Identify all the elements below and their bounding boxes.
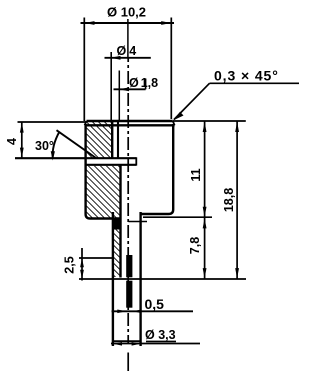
dimension 0,5 line — [112, 310, 194, 314]
dimension 2,5 vertical line — [80, 248, 84, 281]
dimension 4 label — [5, 138, 19, 145]
angle 30 arc with arrow — [51, 132, 60, 161]
svg-text:Ø 3,3: Ø 3,3 — [145, 328, 176, 342]
svg-text:30°: 30° — [35, 139, 54, 153]
svg-text:Ø4: Ø4 — [117, 44, 137, 58]
stem wall junction dark blob — [112, 218, 121, 230]
upper bore wall line — [117, 122, 119, 159]
dimension 2,5 extension top — [79, 257, 113, 259]
dimension 4 vertical line — [20, 122, 24, 158]
extension line at stem step y279 — [79, 278, 246, 280]
groove step riser — [135, 157, 137, 165]
dimension Ø10,2 label — [107, 5, 146, 20]
stem bottom edge — [112, 340, 142, 342]
body top face edge — [87, 120, 173, 122]
stem left outer wall — [112, 212, 114, 346]
dimension Ø1,8 line — [114, 79, 146, 92]
dimension 18,8 label — [222, 188, 236, 212]
extension line right of Ø10,2 — [170, 18, 172, 120]
lower bore wall line — [119, 165, 121, 278]
center drill hole bar upper — [126, 255, 132, 277]
flange left edge and bottom left — [86, 124, 121, 219]
dimension 4 extension top — [18, 121, 86, 123]
dimension 2,5 label — [63, 256, 77, 273]
groove step upper edge + 4-dim extension — [15, 157, 136, 159]
groove step lower edge — [86, 164, 137, 166]
angle 30 label — [35, 139, 54, 153]
lower hatch block (flange section below groove) — [86, 166, 120, 218]
svg-text:2,5: 2,5 — [63, 256, 77, 273]
angle 30 ray — [57, 130, 97, 158]
svg-text:0,5: 0,5 — [145, 296, 165, 312]
svg-text:4: 4 — [5, 138, 19, 145]
dimension Ø10,2 line — [81, 21, 175, 25]
svg-text:Ø1,8: Ø1,8 — [129, 76, 158, 90]
svg-text:18,8: 18,8 — [222, 188, 236, 212]
chamfer corner right — [173, 121, 175, 125]
dimension 11 / 7,8 vertical line — [203, 121, 207, 279]
extension line center top — [127, 19, 129, 58]
counterbore wall line — [111, 122, 113, 159]
extension line left of Ø10,2 — [83, 18, 85, 122]
centerline — [127, 58, 129, 344]
extension line top right (for 11 and 18,8) — [173, 120, 246, 122]
extension line Ø4 left — [110, 52, 112, 121]
center drill hole bar lower — [126, 281, 132, 308]
svg-text:Ø 10,2: Ø 10,2 — [107, 5, 146, 20]
dimension 18,8 vertical line — [235, 121, 239, 279]
body chamfer lower edge — [85, 124, 175, 126]
dimension 0,5 label — [145, 296, 165, 312]
svg-text:11: 11 — [189, 168, 203, 181]
svg-text:7,8: 7,8 — [188, 237, 202, 254]
dimension Ø4 line — [105, 56, 151, 60]
dimension Ø4 label — [117, 44, 137, 58]
dimension Ø3,3 label — [145, 328, 176, 342]
dimension Ø3,3 line — [111, 341, 200, 345]
dimension 7,8 label — [188, 237, 202, 254]
stem wall hatch strip — [114, 219, 120, 278]
chamfer note 0,3 x 45 — [173, 68, 299, 121]
extension line under flange (for 11 and 7,8) — [143, 216, 212, 218]
stem right outer wall — [139, 212, 141, 346]
dimension Ø1,8 label — [129, 76, 158, 90]
extension line Ø1,8 left — [118, 71, 120, 122]
dimension 11 label — [189, 168, 203, 181]
svg-text:0,3 × 45°: 0,3 × 45° — [214, 68, 279, 84]
chamfer corner left — [85, 121, 87, 125]
stem shoulder stub line — [129, 221, 148, 223]
flange right edge and bottom right — [140, 124, 174, 214]
upper hatch block (flange section above groove) — [86, 122, 112, 158]
